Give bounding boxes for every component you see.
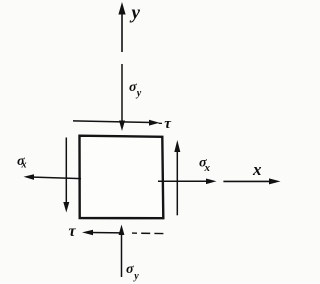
svg-text:x: x <box>21 160 27 171</box>
svg-text:σ: σ <box>126 262 134 277</box>
svg-text:y: y <box>130 3 141 24</box>
svg-text:τ: τ <box>69 223 77 240</box>
svg-text:y: y <box>136 88 142 99</box>
svg-text:σ: σ <box>129 80 137 95</box>
svg-text:x: x <box>204 162 211 174</box>
svg-text:x: x <box>252 160 262 179</box>
svg-text:y: y <box>133 271 139 282</box>
